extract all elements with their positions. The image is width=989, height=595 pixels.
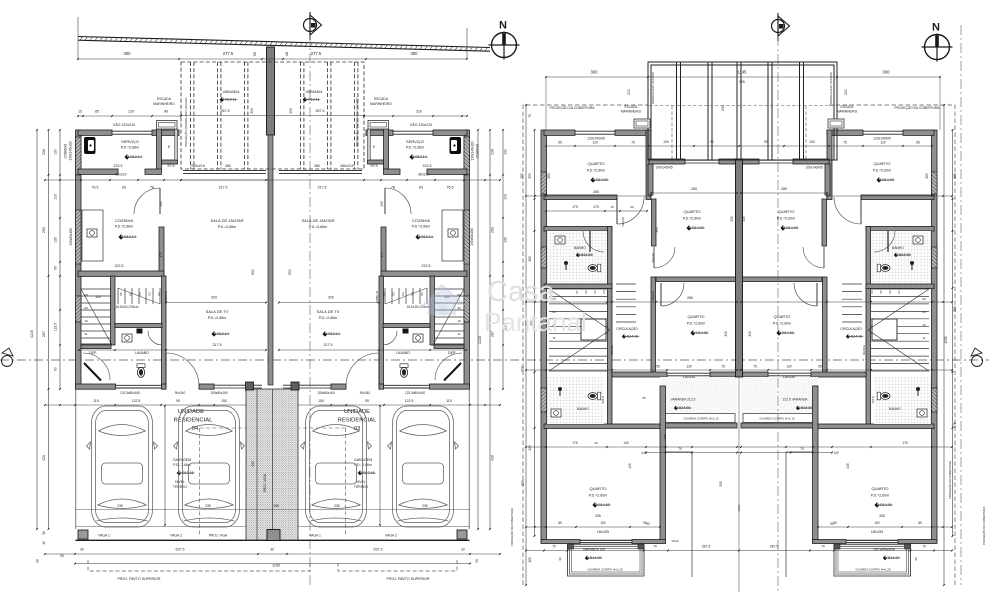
svg-text:175: 175	[159, 252, 163, 258]
svg-text:380: 380	[314, 164, 320, 168]
svg-text:320: 320	[211, 296, 217, 300]
svg-text:PROJ. VIGA: PROJ. VIGA	[209, 534, 228, 538]
svg-text:95: 95	[60, 554, 64, 558]
svg-text:263: 263	[953, 173, 957, 179]
svg-text:85: 85	[916, 141, 920, 145]
svg-text:200: 200	[627, 89, 631, 95]
svg-text:09: 09	[457, 306, 461, 310]
svg-text:16,5x15=276cm: 16,5x15=276cm	[407, 305, 430, 309]
svg-text:100: 100	[809, 140, 815, 144]
svg-text:222.5: 222.5	[115, 264, 124, 268]
svg-text:VIGA: VIGA	[671, 539, 678, 543]
svg-text:QUARTO: QUARTO	[688, 314, 705, 319]
svg-text:ESCADA: ESCADA	[157, 97, 172, 101]
svg-text:QUARTO: QUARTO	[872, 486, 889, 491]
svg-text:03: 03	[148, 292, 152, 296]
svg-text:30: 30	[42, 531, 46, 535]
svg-text:04: 04	[602, 290, 606, 294]
svg-text:212.5 VARANDA: 212.5 VARANDA	[783, 398, 809, 402]
svg-text:P.D.=2,60m: P.D.=2,60m	[683, 217, 702, 221]
svg-text:LAVABO: LAVABO	[135, 351, 149, 355]
svg-text:NIVEL: NIVEL	[175, 480, 185, 484]
svg-text:02: 02	[157, 292, 161, 296]
svg-text:N: N	[932, 22, 940, 34]
svg-text:280: 280	[781, 187, 787, 191]
svg-text:60: 60	[54, 367, 58, 371]
svg-text:11: 11	[84, 332, 87, 336]
svg-text:VARANDA: VARANDA	[305, 90, 323, 94]
svg-text:P.D.: 2,66m: P.D.: 2,66m	[354, 463, 372, 467]
svg-text:GUARDA CORPO H=1,20: GUARDA CORPO H=1,20	[855, 568, 890, 572]
svg-text:267.5: 267.5	[221, 109, 230, 113]
svg-text:75: 75	[631, 141, 635, 145]
svg-text:115: 115	[93, 399, 99, 403]
svg-text:120: 120	[880, 141, 886, 145]
svg-text:70x210: 70x210	[651, 253, 655, 263]
svg-text:293: 293	[491, 227, 495, 233]
svg-text:150x80x160: 150x80x160	[317, 391, 335, 395]
svg-text:70: 70	[552, 545, 556, 549]
svg-text:85: 85	[918, 521, 922, 525]
svg-text:150x80x160: 150x80x160	[210, 391, 228, 395]
svg-text:06: 06	[119, 292, 123, 296]
svg-text:278: 278	[953, 422, 957, 428]
svg-text:325: 325	[742, 216, 746, 222]
svg-text:VAGA 2: VAGA 2	[385, 534, 397, 538]
svg-text:130: 130	[54, 149, 58, 155]
svg-text:Casa: Casa	[487, 276, 556, 308]
svg-text:08: 08	[922, 297, 926, 301]
svg-text:30: 30	[461, 548, 465, 552]
svg-text:310: 310	[724, 331, 728, 337]
svg-text:COZINHA: COZINHA	[412, 218, 430, 223]
svg-text:70: 70	[800, 447, 804, 451]
svg-text:50: 50	[253, 52, 257, 56]
svg-text:PROJ. PAVTO SUPERIOR: PROJ. PAVTO SUPERIOR	[118, 577, 161, 581]
svg-text:ESCADA: ESCADA	[840, 105, 854, 109]
svg-text:280: 280	[691, 187, 697, 191]
svg-text:P.D.=2,60m: P.D.=2,60m	[687, 322, 706, 326]
svg-text:90: 90	[643, 521, 647, 525]
svg-text:PERGOLADO VAZADO: PERGOLADO VAZADO	[651, 71, 655, 104]
svg-text:Pantanal: Pantanal	[484, 307, 587, 337]
svg-text:90: 90	[764, 140, 768, 144]
svg-text:235: 235	[334, 504, 340, 508]
svg-text:10: 10	[922, 323, 926, 327]
svg-text:DESCE: DESCE	[610, 345, 614, 355]
svg-text:300: 300	[411, 51, 419, 56]
svg-text:260x210: 260x210	[340, 164, 354, 168]
svg-text:75: 75	[753, 365, 757, 369]
svg-text:COBOGÓ: COBOGÓ	[475, 143, 480, 158]
svg-text:70x210: 70x210	[621, 217, 625, 227]
svg-text:195 VARANDA: 195 VARANDA	[873, 548, 896, 552]
svg-text:445: 445	[846, 463, 850, 469]
svg-text:537.5: 537.5	[374, 548, 383, 552]
svg-text:130x235: 130x235	[783, 375, 795, 379]
svg-text:310: 310	[748, 331, 752, 337]
svg-text:353: 353	[655, 227, 659, 233]
svg-text:320: 320	[328, 296, 334, 300]
svg-text:103: 103	[504, 194, 508, 200]
svg-text:MARINHEIRO: MARINHEIRO	[153, 102, 175, 106]
svg-text:05: 05	[593, 290, 597, 294]
svg-text:95: 95	[176, 399, 180, 403]
svg-text:290: 290	[289, 108, 293, 114]
svg-text:P.D.=2,66m: P.D.=2,66m	[218, 225, 237, 229]
svg-text:122.5: 122.5	[132, 399, 141, 403]
svg-text:133: 133	[159, 201, 163, 207]
svg-text:445: 445	[663, 434, 667, 439]
svg-text:287: 287	[42, 331, 46, 337]
svg-text:126.5: 126.5	[601, 396, 605, 404]
svg-text:85: 85	[558, 141, 562, 145]
svg-text:420: 420	[42, 455, 46, 461]
svg-text:09: 09	[922, 310, 926, 314]
svg-text:90: 90	[36, 559, 40, 563]
svg-text:122,5x80x160: 122,5x80x160	[405, 391, 425, 395]
svg-text:90: 90	[630, 205, 634, 209]
svg-text:175: 175	[593, 205, 599, 209]
svg-text:30: 30	[80, 548, 84, 552]
svg-text:175: 175	[572, 441, 578, 445]
svg-text:165: 165	[273, 504, 279, 508]
svg-text:55: 55	[642, 396, 646, 400]
svg-text:537.5: 537.5	[176, 548, 185, 552]
svg-text:300: 300	[883, 70, 891, 75]
svg-text:CIRCULAÇÃO: CIRCULAÇÃO	[616, 326, 638, 331]
svg-text:VIGA: VIGA	[737, 504, 741, 511]
svg-text:310: 310	[416, 110, 422, 114]
svg-text:300: 300	[124, 51, 132, 56]
svg-text:PROJEÇÃO PERGOLADO VAZADO: PROJEÇÃO PERGOLADO VAZADO	[183, 97, 188, 147]
svg-text:55: 55	[818, 365, 822, 369]
svg-text:QUARTO: QUARTO	[778, 209, 795, 214]
svg-text:COZINHA: COZINHA	[115, 218, 133, 223]
svg-text:103: 103	[54, 194, 58, 200]
svg-text:11: 11	[457, 332, 460, 336]
svg-text:78: 78	[391, 186, 395, 190]
svg-text:70x210: 70x210	[651, 291, 655, 301]
svg-text:GUARDA CORPO H=1,10: GUARDA CORPO H=1,10	[683, 417, 718, 421]
svg-text:90: 90	[646, 522, 650, 526]
svg-text:MARINHEIRO: MARINHEIRO	[621, 110, 642, 114]
svg-text:RESIDENCIAL: RESIDENCIAL	[338, 418, 377, 424]
svg-text:P.D.=2,66m: P.D.=2,66m	[309, 225, 328, 229]
svg-text:PROJ. VIGA: PROJ. VIGA	[263, 473, 267, 492]
svg-text:222.5: 222.5	[114, 164, 123, 168]
svg-text:GARAGEM: GARAGEM	[173, 458, 191, 462]
svg-text:70: 70	[922, 545, 926, 549]
svg-text:P.D.=2,66m: P.D.=2,66m	[412, 225, 431, 229]
svg-text:LAVABO: LAVABO	[396, 351, 410, 355]
svg-text:PROJEÇÃO DA COBERTURA: PROJEÇÃO DA COBERTURA	[947, 461, 952, 499]
svg-text:NIVEL: NIVEL	[356, 480, 366, 484]
svg-text:293: 293	[42, 227, 46, 233]
svg-text:267.5: 267.5	[316, 109, 325, 113]
svg-text:135x60x180: 135x60x180	[69, 228, 73, 246]
svg-text:83: 83	[419, 186, 423, 190]
svg-text:QUARTO: QUARTO	[684, 209, 701, 214]
svg-text:70: 70	[821, 545, 825, 549]
svg-text:300: 300	[591, 70, 599, 75]
svg-text:QUARTO: QUARTO	[590, 486, 607, 491]
svg-text:PROJEÇÃO DA COBERTURA: PROJEÇÃO DA COBERTURA	[981, 507, 986, 545]
svg-text:DESCE: DESCE	[862, 345, 866, 355]
svg-text:263: 263	[520, 173, 524, 179]
svg-text:277.5: 277.5	[311, 51, 322, 56]
svg-text:SALA DE TV: SALA DE TV	[317, 309, 340, 314]
svg-text:90x240: 90x240	[360, 391, 371, 395]
svg-text:PROJEÇÃO DA COBERTURA: PROJEÇÃO DA COBERTURA	[894, 105, 940, 110]
svg-text:75: 75	[167, 145, 171, 149]
svg-text:RESIDENCIAL: RESIDENCIAL	[174, 418, 213, 424]
svg-text:P.D.=2,60m: P.D.=2,60m	[773, 322, 792, 326]
svg-text:222.5: 222.5	[422, 264, 431, 268]
svg-text:11: 11	[922, 336, 925, 340]
svg-text:1165: 1165	[272, 564, 280, 568]
svg-text:GUARDA CORPO H=1,20: GUARDA CORPO H=1,20	[587, 568, 622, 572]
svg-text:277.5: 277.5	[223, 51, 234, 56]
svg-text:430: 430	[251, 461, 255, 467]
svg-text:07: 07	[575, 290, 579, 294]
svg-text:100: 100	[663, 140, 669, 144]
svg-text:90: 90	[833, 521, 837, 525]
svg-text:76.5: 76.5	[92, 186, 99, 190]
svg-text:83: 83	[122, 186, 126, 190]
svg-text:VAGA 1: VAGA 1	[309, 534, 321, 538]
svg-text:90: 90	[475, 559, 479, 563]
svg-text:CIRCULAÇÃO: CIRCULAÇÃO	[840, 326, 862, 331]
svg-text:GARAGEM: GARAGEM	[354, 458, 372, 462]
svg-text:80x210: 80x210	[115, 173, 126, 177]
svg-text:PROJEÇÃO DA COBERTURA: PROJEÇÃO DA COBERTURA	[549, 105, 595, 110]
svg-text:115: 115	[446, 399, 452, 403]
svg-text:70: 70	[653, 545, 657, 549]
svg-text:445: 445	[628, 463, 632, 469]
svg-text:150: 150	[221, 399, 227, 403]
svg-text:353: 353	[528, 173, 532, 179]
svg-text:DEP.: DEP.	[448, 351, 456, 355]
svg-text:280: 280	[687, 296, 693, 300]
svg-text:VÃO 120x210: VÃO 120x210	[113, 122, 135, 127]
svg-text:290: 290	[250, 108, 254, 114]
svg-text:06: 06	[888, 290, 892, 294]
svg-text:280: 280	[593, 190, 599, 194]
svg-text:P.D.=2,60m: P.D.=2,60m	[589, 494, 608, 498]
svg-text:30: 30	[270, 548, 274, 552]
svg-text:317.5: 317.5	[324, 343, 333, 347]
svg-text:BANHO: BANHO	[892, 246, 904, 250]
svg-text:130: 130	[42, 149, 46, 155]
svg-text:VARANDA: VARANDA	[222, 90, 240, 94]
svg-text:SOBE 01: SOBE 01	[375, 290, 379, 303]
svg-text:PERGOLADO VAZADO: PERGOLADO VAZADO	[829, 71, 833, 104]
svg-text:175: 175	[572, 205, 578, 209]
svg-text:200: 200	[521, 366, 525, 372]
svg-text:175: 175	[380, 252, 384, 258]
svg-text:TÉRREO: TÉRREO	[173, 484, 187, 489]
svg-text:08: 08	[457, 293, 461, 297]
svg-text:QUARTO: QUARTO	[588, 161, 605, 166]
svg-text:130: 130	[504, 149, 508, 155]
svg-text:SERVIÇO: SERVIÇO	[406, 139, 424, 144]
svg-text:15: 15	[594, 441, 598, 445]
svg-text:15: 15	[610, 205, 614, 209]
svg-text:75: 75	[721, 365, 725, 369]
svg-text:130: 130	[491, 149, 495, 155]
svg-text:263: 263	[925, 173, 929, 179]
svg-text:03: 03	[392, 292, 396, 296]
svg-text:650: 650	[288, 269, 292, 275]
svg-text:10: 10	[84, 319, 88, 323]
svg-text:650: 650	[251, 269, 255, 275]
svg-text:SALA DE TV: SALA DE TV	[206, 309, 229, 314]
svg-text:P.D.=2,60m: P.D.=2,60m	[777, 217, 796, 221]
svg-text:175: 175	[902, 441, 908, 445]
svg-text:COBOGÓ: COBOGÓ	[63, 143, 68, 158]
svg-text:122.5: 122.5	[405, 399, 414, 403]
svg-text:02: 02	[382, 292, 386, 296]
svg-text:16,5x15=276cm: 16,5x15=276cm	[116, 305, 139, 309]
svg-text:423: 423	[528, 445, 532, 451]
svg-text:BANHO: BANHO	[889, 407, 901, 411]
svg-text:278: 278	[521, 480, 525, 486]
svg-text:SALA DE JANTAR: SALA DE JANTAR	[301, 218, 334, 223]
svg-text:P.D.=2,66m: P.D.=2,66m	[115, 225, 134, 229]
svg-text:100x140x95: 100x140x95	[655, 166, 673, 170]
svg-text:335: 335	[719, 481, 723, 487]
svg-text:VARANDA 212.5: VARANDA 212.5	[671, 398, 696, 402]
svg-text:VÃO 120x210: VÃO 120x210	[410, 122, 432, 127]
svg-text:95: 95	[54, 266, 58, 270]
svg-text:BANHO: BANHO	[574, 246, 586, 250]
svg-text:P.D.=2,66m: P.D.=2,66m	[121, 146, 140, 150]
svg-text:130x140x100: 130x140x100	[471, 141, 475, 160]
svg-text:09: 09	[84, 306, 88, 310]
svg-text:150: 150	[318, 399, 324, 403]
svg-text:287.5: 287.5	[770, 545, 779, 549]
svg-text:90: 90	[914, 557, 918, 561]
svg-text:05: 05	[879, 290, 883, 294]
svg-text:130: 130	[786, 365, 792, 369]
svg-text:140: 140	[641, 451, 647, 455]
svg-text:DEP.: DEP.	[89, 351, 97, 355]
svg-text:VAGA 2: VAGA 2	[170, 534, 182, 538]
svg-text:85: 85	[558, 521, 562, 525]
svg-text:100x140x95: 100x140x95	[805, 166, 823, 170]
svg-text:1145: 1145	[737, 70, 747, 75]
svg-text:QUARTO: QUARTO	[774, 314, 791, 319]
svg-text:133: 133	[380, 201, 384, 207]
svg-text:P.D.=2,60m: P.D.=2,60m	[873, 169, 892, 173]
svg-text:122,5x80x160: 122,5x80x160	[120, 391, 140, 395]
svg-text:380: 380	[225, 164, 231, 168]
svg-text:263: 263	[547, 173, 551, 179]
svg-text:PROJEÇÃO PERGOLADO VAZADO: PROJEÇÃO PERGOLADO VAZADO	[354, 97, 359, 147]
svg-text:P.D.=2,66m: P.D.=2,66m	[319, 316, 338, 320]
svg-text:P.D.=2,60m: P.D.=2,60m	[871, 494, 890, 498]
svg-text:120: 120	[128, 110, 134, 114]
svg-text:MARINHEIRO: MARINHEIRO	[837, 110, 858, 114]
svg-text:VARANDA 195: VARANDA 195	[583, 548, 605, 552]
svg-text:GUARDA CORPO H=1,10: GUARDA CORPO H=1,10	[759, 417, 794, 421]
svg-text:317.5: 317.5	[318, 186, 327, 190]
svg-text:160x235: 160x235	[871, 530, 883, 534]
svg-text:135: 135	[54, 237, 58, 243]
svg-text:90: 90	[710, 140, 714, 144]
svg-text:06: 06	[420, 292, 424, 296]
svg-text:1220: 1220	[30, 330, 34, 338]
svg-text:75: 75	[843, 141, 847, 145]
svg-text:78: 78	[150, 186, 154, 190]
svg-text:90x240: 90x240	[175, 391, 186, 395]
svg-text:04: 04	[870, 290, 874, 294]
svg-text:222.5: 222.5	[423, 164, 432, 168]
svg-text:P.D.=2,60m: P.D.=2,60m	[587, 169, 606, 173]
svg-text:ESCADA: ESCADA	[374, 97, 389, 101]
svg-text:SERVIÇO: SERVIÇO	[121, 139, 139, 144]
svg-text:140: 140	[833, 451, 839, 455]
svg-text:123.5: 123.5	[54, 323, 58, 332]
svg-text:15: 15	[78, 110, 82, 114]
svg-text:260x210: 260x210	[191, 164, 205, 168]
svg-text:90: 90	[558, 557, 562, 561]
svg-text:55: 55	[656, 365, 660, 369]
svg-text:SOBE 01: SOBE 01	[164, 290, 168, 303]
svg-text:04: 04	[401, 292, 405, 296]
svg-text:200: 200	[844, 89, 848, 95]
svg-text:PROJ. PAVTO SUPERIOR: PROJ. PAVTO SUPERIOR	[387, 577, 430, 581]
svg-text:90: 90	[164, 110, 168, 114]
svg-text:70: 70	[528, 114, 532, 118]
svg-text:76.5: 76.5	[447, 186, 454, 190]
svg-text:95: 95	[365, 399, 369, 403]
svg-text:15: 15	[42, 541, 46, 545]
svg-text:10: 10	[457, 319, 461, 323]
svg-text:317.5: 317.5	[219, 186, 228, 190]
svg-text:160: 160	[528, 256, 532, 262]
svg-text:85: 85	[95, 110, 99, 114]
svg-text:57.5: 57.5	[371, 164, 378, 168]
svg-text:PROJEÇÃO DA COBERTURA: PROJEÇÃO DA COBERTURA	[509, 508, 514, 546]
svg-text:05: 05	[129, 292, 133, 296]
svg-text:130: 130	[686, 365, 692, 369]
svg-text:126.5: 126.5	[871, 396, 875, 404]
svg-text:BANHO: BANHO	[577, 407, 589, 411]
svg-text:N: N	[499, 20, 507, 32]
svg-text:130x235: 130x235	[683, 375, 695, 379]
svg-text:MARINHEIRO: MARINHEIRO	[370, 102, 392, 106]
svg-text:317.5: 317.5	[213, 343, 222, 347]
svg-text:160: 160	[600, 521, 606, 525]
svg-text:100: 100	[95, 295, 101, 299]
svg-text:325: 325	[730, 216, 734, 222]
svg-text:160x235: 160x235	[597, 530, 609, 534]
svg-text:235: 235	[205, 504, 211, 508]
svg-text:235: 235	[117, 504, 123, 508]
svg-text:160: 160	[874, 521, 880, 525]
svg-text:235: 235	[422, 504, 428, 508]
svg-text:08: 08	[84, 293, 88, 297]
svg-text:335: 335	[595, 514, 601, 518]
svg-text:287.5: 287.5	[702, 545, 711, 549]
svg-text:80x210: 80x210	[418, 173, 429, 177]
svg-text:100: 100	[528, 557, 532, 563]
svg-text:995: 995	[739, 80, 745, 84]
svg-text:420: 420	[491, 455, 495, 461]
svg-text:140: 140	[623, 441, 629, 445]
